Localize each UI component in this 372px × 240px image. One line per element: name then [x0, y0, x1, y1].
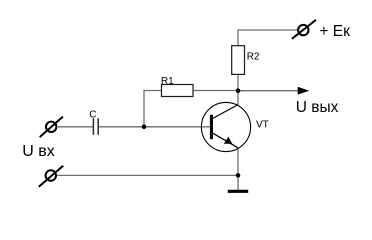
wire: bottom rail junction to ground — [237, 175, 239, 190]
wire: bottom rail from lower input terminal to emitter column — [57, 174, 239, 176]
svg-text:+ Ек: + Ек — [319, 23, 350, 40]
resistor R1 — [162, 85, 194, 97]
svg-text:VT: VT — [256, 119, 269, 130]
node: collector junction dot — [236, 88, 241, 93]
capacitor C — [93, 118, 98, 135]
wire: R1 left lead and vertical drop to base node — [144, 91, 162, 127]
terminal: upper input — [40, 117, 63, 138]
resistor R2 — [232, 46, 245, 75]
transistor VT: base bar — [210, 115, 213, 139]
wire: R2 bottom to collector of transistor — [237, 74, 239, 105]
transistor VT: body circle — [201, 102, 250, 151]
svg-text:U вых: U вых — [296, 99, 339, 116]
svg-text:C: C — [89, 110, 96, 121]
wire: emitter vertical to bottom rail — [237, 148, 239, 175]
transistor VT: collector stroke — [213, 105, 238, 119]
transistor VT: emitter arrowhead — [224, 137, 233, 144]
svg-text:U вх: U вх — [22, 143, 55, 160]
output arrowhead — [298, 87, 310, 95]
transistor VT: emitter stroke — [213, 133, 238, 148]
node: emitter/bottom-rail junction dot — [236, 173, 241, 178]
wire: capacitor to base of transistor — [99, 126, 211, 128]
svg-text:R1: R1 — [161, 76, 174, 87]
node: base junction dot — [142, 125, 147, 130]
terminal: +Ek supply — [292, 20, 316, 39]
svg-text:R2: R2 — [247, 52, 260, 63]
wire: R1 right lead to collector vertical — [193, 90, 238, 92]
terminal: lower input — [39, 166, 63, 187]
ground — [228, 190, 248, 193]
wire: top supply rail from collector column to +Ek terminal — [238, 30, 298, 46]
wire: output line from collector node — [238, 90, 298, 92]
wire: input terminal to capacitor — [58, 126, 93, 128]
